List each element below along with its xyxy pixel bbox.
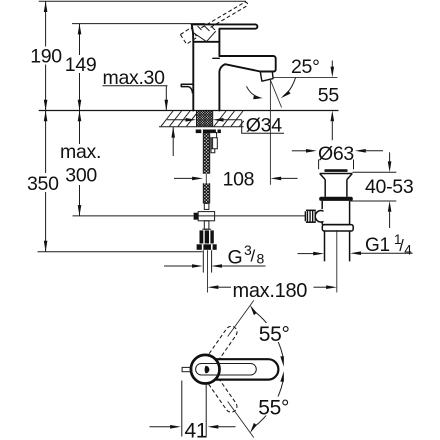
- countertop bottom line: [159, 126, 244, 128]
- reference line top of lever (down position): [72, 23, 205, 25]
- dimension max.180: [218, 286, 231, 288]
- faucet center line lower: [207, 250, 209, 292]
- dashed raised lever: [201, 1, 248, 31]
- svg-text:55: 55: [318, 84, 340, 106]
- countertop surface line: [39, 110, 339, 112]
- dimension 40-53: [352, 171, 396, 173]
- drain body: [321, 201, 323, 209]
- hose neck above rod clamp: [204, 203, 209, 209]
- svg-text:25°: 25°: [291, 56, 320, 78]
- cartridge internal lines: [193, 26, 216, 42]
- 55 degree line lower: [228, 402, 254, 438]
- pop-up rod ball housing: [315, 211, 327, 223]
- svg-text:8: 8: [257, 251, 265, 267]
- dimension max.300 line: [79, 111, 81, 145]
- cartridge dot: [205, 366, 210, 374]
- drain tailpipe: [324, 231, 326, 261]
- max.30 lower arrow below countertop: [172, 127, 174, 156]
- svg-text:190: 190: [30, 45, 62, 67]
- Ø63 extension lines: [318, 160, 320, 170]
- second hose fitting profile: [210, 133, 218, 153]
- label 55 degrees lower: [258, 397, 292, 416]
- svg-text:max.: max.: [60, 141, 101, 163]
- 25 degree angle arc with arrow: [283, 78, 295, 96]
- rod clamp at hose: [194, 213, 199, 220]
- dimension 190 line: [45, 1, 47, 46]
- 55 degree arc upper: [253, 310, 283, 356]
- label 55 degrees upper: [258, 323, 292, 342]
- flexible supply hose lower segment: [203, 183, 209, 203]
- svg-text:149: 149: [65, 54, 97, 76]
- svg-text:300: 300: [65, 165, 97, 187]
- drain center line: [336, 230, 338, 293]
- svg-text:40-53: 40-53: [365, 176, 413, 198]
- threaded shank through countertop: [197, 111, 213, 127]
- left spray angle arc with arrow: [247, 86, 260, 97]
- mounting nut: [196, 130, 221, 134]
- svg-text:350: 350: [27, 173, 59, 195]
- drain neck: [324, 180, 326, 197]
- white mask circle: [191, 355, 219, 383]
- svg-text:G1: G1: [365, 235, 390, 256]
- pop-up waste cap: [324, 169, 347, 172]
- flexible supply hose upper segment: [203, 133, 209, 174]
- countertop hatching left: [161, 111, 196, 126]
- dimension Ø34 arrows: [167, 119, 186, 121]
- seal ring: [319, 197, 353, 201]
- hose break thin line: [205, 174, 207, 184]
- dimension 55 (outlet height): [331, 61, 333, 68]
- svg-text:4: 4: [404, 243, 412, 258]
- reference line top of raised lever: [39, 0, 246, 2]
- svg-text:Ø34: Ø34: [246, 115, 282, 137]
- coupling nut: [322, 225, 353, 231]
- dashed lever slot rotated down 55: [195, 358, 239, 414]
- spout outlet vertical extension line: [269, 80, 271, 185]
- aerator outlet piece: [260, 72, 273, 82]
- svg-text:108: 108: [223, 169, 255, 191]
- side inlet hook on body: [181, 84, 193, 93]
- lever slot top view: [196, 364, 257, 376]
- svg-text:G: G: [228, 247, 243, 269]
- solid lever top view: [215, 359, 278, 379]
- dimension 108: [174, 177, 193, 179]
- 55 degree arc lower: [253, 382, 283, 428]
- dimension 41 arrows: [150, 426, 171, 428]
- faucet body circle top view: [191, 355, 220, 384]
- svg-text:41: 41: [185, 420, 208, 440]
- 25 degree slanted stream line: [270, 80, 281, 108]
- svg-text:55°: 55°: [258, 396, 289, 419]
- dimension 350 line: [45, 111, 47, 174]
- extension line bottom of 350: [38, 251, 203, 253]
- leader and label Ø34: [242, 120, 284, 133]
- svg-text:/: /: [251, 247, 256, 266]
- horizontal reference line at outlet: [273, 76, 338, 78]
- svg-text:max.180: max.180: [233, 280, 308, 302]
- max.30 leader arrow to countertop: [165, 86, 167, 111]
- dimension 149 line: [79, 24, 81, 55]
- 55 degree line upper: [228, 300, 254, 336]
- lever left tab: [182, 367, 192, 371]
- supply pipe open end: [202, 250, 204, 272]
- dashed lever slot rotated up 55: [195, 324, 239, 380]
- dimension 41 extension lines: [181, 381, 183, 437]
- svg-text:55°: 55°: [259, 323, 290, 346]
- dashed raised lever base: [180, 28, 197, 44]
- knurled adjuster knob: [306, 210, 316, 222]
- G3/8 connection nut: [200, 230, 214, 243]
- hose neck below rod clamp: [204, 221, 209, 229]
- dimension Ø63: [292, 150, 306, 152]
- svg-text:Ø63: Ø63: [318, 143, 354, 165]
- countertop hatching right: [214, 111, 244, 126]
- extension line bottom of max.300 / pop-up rod line: [73, 215, 307, 217]
- faucet body outline: [192, 24, 276, 110]
